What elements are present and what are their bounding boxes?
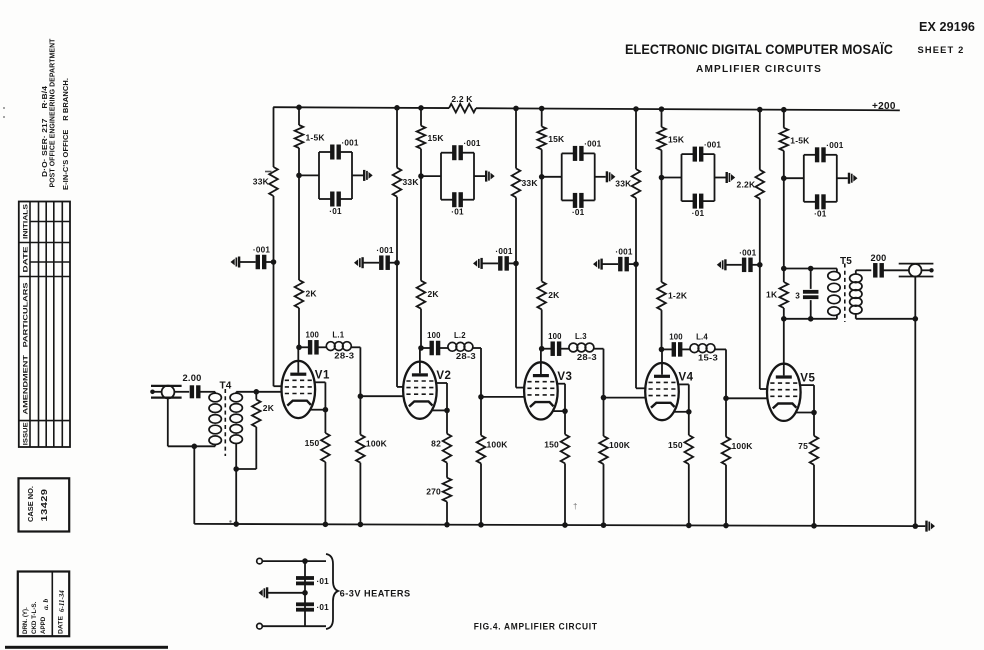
- svg-text:a. b: a. b: [41, 599, 50, 611]
- svg-text:3: 3: [795, 292, 800, 301]
- svg-text:APPD: APPD: [40, 616, 47, 634]
- svg-text:2K: 2K: [428, 289, 440, 299]
- svg-text:V4: V4: [679, 372, 694, 384]
- svg-text:1-2K: 1-2K: [668, 291, 688, 301]
- svg-text:1-5K: 1-5K: [306, 133, 326, 143]
- svg-text:33K: 33K: [615, 179, 632, 189]
- svg-text:L.1: L.1: [332, 331, 344, 340]
- svg-text:T5: T5: [840, 256, 852, 267]
- svg-text:CKD T-L-S.: CKD T-L-S.: [31, 601, 38, 634]
- svg-text:2.2 K: 2.2 K: [451, 94, 473, 104]
- svg-text:2K: 2K: [548, 290, 560, 300]
- svg-text:150: 150: [668, 440, 683, 450]
- svg-text:100: 100: [669, 333, 683, 342]
- svg-text:CASE NO.: CASE NO.: [26, 486, 35, 522]
- svg-text:2.00: 2.00: [183, 373, 202, 383]
- svg-text:1K: 1K: [766, 290, 778, 300]
- svg-text:33K: 33K: [522, 178, 539, 188]
- svg-text:·001: ·001: [739, 248, 756, 257]
- svg-text:33K: 33K: [403, 177, 420, 187]
- svg-text:V1: V1: [315, 370, 330, 382]
- svg-text:270: 270: [426, 487, 441, 497]
- svg-text:28-3: 28-3: [334, 352, 355, 361]
- svg-text:·001: ·001: [826, 141, 843, 150]
- svg-text:V2: V2: [436, 370, 451, 382]
- svg-text:·01: ·01: [692, 209, 705, 218]
- svg-text:V3: V3: [557, 371, 572, 383]
- svg-text:AMENDMENT PARTICULARS: AMENDMENT PARTICULARS: [23, 282, 30, 415]
- svg-text:100: 100: [305, 331, 319, 340]
- svg-text:·001: ·001: [376, 246, 393, 255]
- svg-text:·001: ·001: [464, 139, 481, 148]
- svg-text:E-IN-C'S OFFICE R BRANCH.: E-IN-C'S OFFICE R BRANCH.: [61, 78, 70, 190]
- svg-text:·001: ·001: [615, 248, 632, 257]
- svg-text:6-3V HEATERS: 6-3V HEATERS: [340, 589, 411, 599]
- svg-text:1-5K: 1-5K: [790, 135, 810, 145]
- svg-text:100K: 100K: [732, 441, 754, 451]
- svg-text:ISSUE: ISSUE: [23, 422, 30, 446]
- svg-text:INITIALS: INITIALS: [23, 203, 30, 239]
- svg-text:13429: 13429: [40, 488, 49, 521]
- svg-text:15K: 15K: [668, 135, 685, 145]
- svg-text:·001: ·001: [495, 247, 512, 256]
- svg-text:·001: ·001: [342, 138, 359, 147]
- svg-text:28-3: 28-3: [577, 353, 598, 362]
- svg-text:AMPLIFIER CIRCUITS: AMPLIFIER CIRCUITS: [696, 64, 822, 75]
- svg-text:·01: ·01: [814, 210, 827, 219]
- svg-text:L.4: L.4: [696, 333, 708, 342]
- svg-text:EX 29196: EX 29196: [919, 19, 975, 34]
- svg-text:·01: ·01: [572, 208, 585, 217]
- svg-text:15K: 15K: [428, 133, 445, 143]
- svg-text:2K: 2K: [306, 289, 318, 299]
- svg-text:15K: 15K: [548, 134, 565, 144]
- svg-text:·01: ·01: [329, 207, 342, 216]
- svg-text:FIG.4. AMPLIFIER CIRCUIT: FIG.4. AMPLIFIER CIRCUIT: [474, 622, 598, 632]
- svg-text:·001: ·001: [584, 140, 601, 149]
- svg-text:·01: ·01: [317, 577, 330, 586]
- svg-text:·001: ·001: [253, 246, 270, 255]
- svg-text:15-3: 15-3: [698, 354, 719, 363]
- svg-text:DATE: DATE: [58, 616, 65, 634]
- svg-text:·001: ·001: [704, 140, 721, 149]
- svg-text:100K: 100K: [487, 439, 509, 449]
- svg-text:DATE: DATE: [23, 246, 30, 273]
- svg-text:L.2: L.2: [454, 331, 466, 340]
- svg-text:82: 82: [431, 439, 441, 449]
- svg-text:ELECTRONIC DIGITAL COMPUTER: ELECTRONIC DIGITAL COMPUTER MOSAÏC: [625, 41, 893, 58]
- svg-text:·01: ·01: [451, 208, 464, 217]
- svg-text:DRN. (Y).: DRN. (Y).: [22, 607, 29, 634]
- svg-text:100: 100: [427, 331, 441, 340]
- svg-text:†: †: [573, 502, 577, 511]
- svg-text:2.2K: 2.2K: [737, 179, 756, 189]
- svg-text:200: 200: [871, 253, 887, 263]
- svg-text:6-11-34: 6-11-34: [58, 590, 66, 612]
- svg-text:L.3: L.3: [575, 332, 587, 341]
- svg-text:100K: 100K: [366, 439, 388, 449]
- svg-text:POST OFFICE ENGINEERING DEPAR: POST OFFICE ENGINEERING DEPARTMENT: [48, 38, 57, 187]
- svg-text:·01: ·01: [317, 603, 330, 612]
- svg-text:28-3: 28-3: [456, 352, 477, 361]
- svg-text:75: 75: [798, 441, 808, 451]
- svg-text:100K: 100K: [609, 440, 631, 450]
- svg-text:150: 150: [305, 438, 320, 448]
- svg-text:V5: V5: [800, 372, 815, 384]
- svg-text:2K: 2K: [263, 403, 275, 413]
- svg-text:SHEET 2: SHEET 2: [918, 45, 965, 56]
- svg-text:33K: 33K: [253, 177, 270, 187]
- svg-text:100: 100: [548, 332, 562, 341]
- svg-text:150: 150: [544, 439, 559, 449]
